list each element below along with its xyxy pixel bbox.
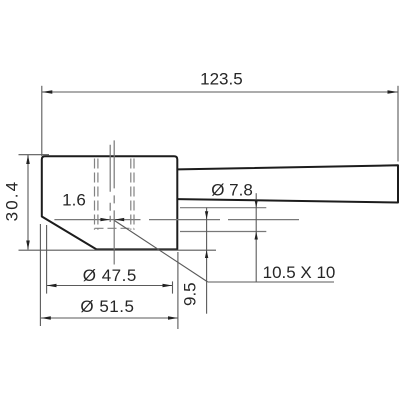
dimension 9.5 line — [206, 208, 208, 314]
svg-text:30.4: 30.4 — [2, 180, 21, 222]
dimension 1.6 arrow left — [100, 218, 110, 221]
dimension O 51.5 line — [41, 317, 178, 319]
svg-text:1.6: 1.6 — [62, 191, 86, 210]
threaded hole bottom hidden line — [95, 227, 135, 229]
svg-text:Ø 47.5: Ø 47.5 — [83, 266, 137, 285]
threaded hole hidden line inner-right — [130, 159, 132, 230]
dimension O 47.5 extension right — [172, 281, 174, 293]
horizontal centerline — [54, 219, 299, 221]
dimension O 47.5 extension left — [46, 225, 48, 294]
svg-text:10.5 X 10: 10.5 X 10 — [263, 263, 336, 282]
dimension O 51.5 extension right — [177, 252, 179, 329]
dimension O 47.5 line — [47, 285, 173, 287]
dimension O 51.5 arrow right — [168, 316, 178, 320]
shaft line bottom (O 7.8 hidden boss bottom) — [180, 231, 266, 233]
dimension 30.4 arrow top — [26, 155, 30, 164]
leader 10.5x10 diagonal — [114, 221, 207, 283]
dimension 123.5 arrow left — [42, 90, 53, 94]
dimension 9.5 arrow down — [205, 211, 208, 219]
handle outline — [178, 165, 398, 202]
dimension 30.4 line — [27, 155, 29, 250]
shaft line top (O 7.8 hidden boss top) — [180, 207, 266, 209]
hub vertical centerline — [113, 140, 115, 264]
dimension 9.5 arrow up — [205, 250, 208, 258]
dimension O 51.5 extension left — [39, 224, 41, 326]
svg-text:123.5: 123.5 — [200, 70, 243, 89]
dimension 1.6 arrow right — [114, 218, 124, 221]
dimension 123.5 arrow right — [388, 90, 399, 94]
leader 10.5x10 underline — [208, 281, 334, 283]
dimension 123.5 extension line right — [397, 86, 399, 162]
dimension 123.5 line — [42, 91, 398, 93]
dimension O 7.8 arrow up — [255, 232, 258, 240]
offset vertical centerline — [109, 145, 111, 222]
dimension 30.4 arrow bottom — [26, 241, 30, 250]
svg-text:Ø 51.5: Ø 51.5 — [80, 297, 134, 316]
svg-text:Ø 7.8: Ø 7.8 — [211, 180, 253, 199]
threaded hole hidden line outer-left — [94, 159, 96, 230]
dimension O 51.5 arrow left — [41, 316, 51, 320]
dimension O 47.5 arrow left — [47, 284, 57, 288]
dimension O 47.5 arrow right — [163, 284, 173, 288]
dimension 30.4 extension line top — [19, 154, 50, 156]
hub outline — [42, 156, 178, 249]
threaded hole hidden line inner-left — [97, 159, 99, 230]
dimension 30.4 extension line bottom — [19, 249, 217, 251]
threaded hole hidden line outer-right — [133, 159, 135, 230]
svg-text:9.5: 9.5 — [180, 282, 199, 306]
dimension O 7.8 leader line — [255, 193, 257, 282]
dimension O 7.8 arrow down — [255, 200, 258, 208]
dimension 123.5 extension line left — [41, 86, 43, 156]
